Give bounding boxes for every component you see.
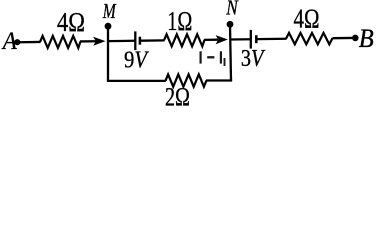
node A bbox=[14, 39, 20, 45]
svg-text:M: M bbox=[102, 0, 117, 23]
svg-text:3V: 3V bbox=[241, 46, 265, 72]
node M dot bbox=[105, 23, 112, 30]
current arrow into N bbox=[204, 35, 228, 44]
svg-text:4Ω: 4Ω bbox=[294, 3, 320, 33]
battery 3V short plate bbox=[255, 35, 258, 43]
svg-text:2Ω: 2Ω bbox=[165, 82, 190, 107]
wire 3V to R3 bbox=[257, 38, 286, 41]
wire bottom rail right bbox=[206, 79, 232, 81]
wire N vertical bbox=[230, 24, 231, 81]
resistor R2 1ohm (M-N) bbox=[164, 34, 205, 46]
wire N to battery 3V bbox=[231, 38, 251, 41]
svg-text:4Ω: 4Ω bbox=[57, 7, 85, 37]
wire M vertical bbox=[107, 26, 109, 81]
node N dot bbox=[227, 21, 234, 28]
wire A to R1 bbox=[20, 41, 41, 44]
svg-text:B: B bbox=[359, 24, 374, 53]
wire 9V to R2 bbox=[141, 39, 165, 42]
wire R3 to B bbox=[333, 37, 353, 40]
battery 9V long plate bbox=[134, 31, 136, 50]
wire bottom rail left (M down-branch) bbox=[107, 80, 166, 82]
current arrow into M bbox=[80, 37, 106, 46]
svg-text:1Ω: 1Ω bbox=[167, 6, 192, 36]
svg-text:N: N bbox=[225, 0, 238, 20]
resistor R1 4ohm (A-M) bbox=[40, 36, 81, 48]
svg-text:9V: 9V bbox=[124, 47, 149, 73]
node B bbox=[352, 35, 359, 42]
resistor R3 4ohm (N-B) bbox=[286, 33, 333, 44]
current label I minus I1 bbox=[201, 51, 225, 66]
battery 3V long plate bbox=[250, 30, 252, 49]
wire M to battery 9V bbox=[108, 40, 135, 43]
resistor R4 2ohm (M-N bottom) bbox=[166, 74, 207, 86]
svg-text:A: A bbox=[1, 28, 17, 55]
battery 9V short plate bbox=[139, 37, 142, 45]
